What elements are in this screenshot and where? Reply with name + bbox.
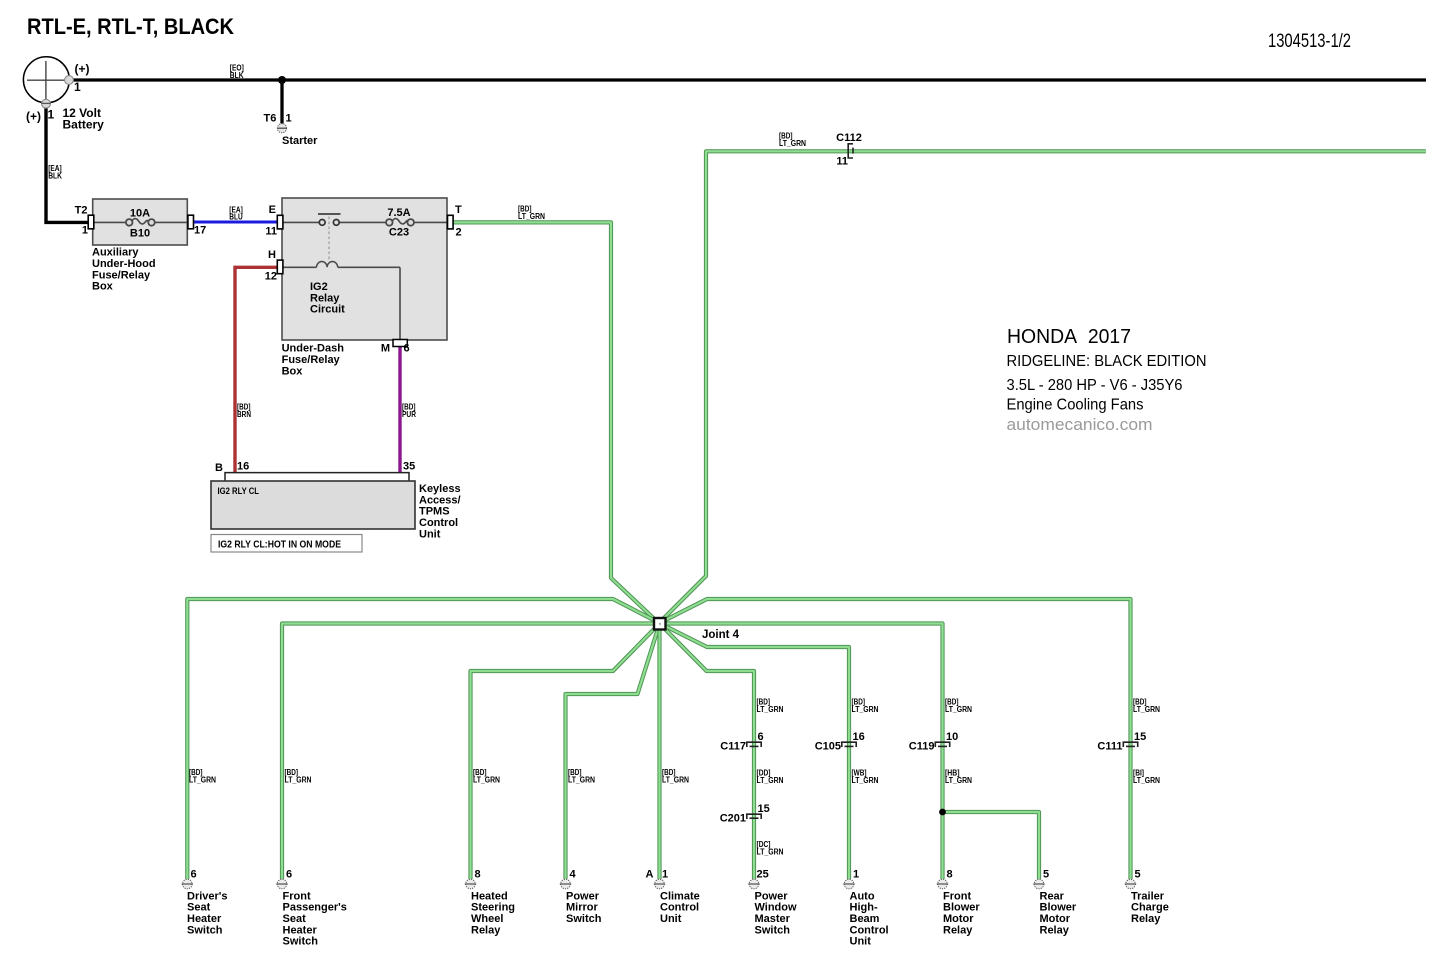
relay coil IG2 — [282, 262, 400, 340]
terminal 4 Power Mirror Switch — [560, 879, 571, 889]
svg-text:LT_GRN: LT_GRN — [1133, 776, 1160, 785]
svg-text:Master: Master — [755, 913, 791, 925]
svg-text:5: 5 — [1043, 869, 1049, 881]
label Auxiliary Under-Hood Fuse/Relay Box — [92, 247, 156, 293]
terminal 6 Driver's Seat Heater Switch — [182, 879, 193, 889]
connector C105 pin 16 — [842, 742, 856, 747]
terminal T6 Starter — [277, 124, 287, 133]
label Climate Control Unit — [660, 890, 700, 925]
svg-text:Steering: Steering — [471, 902, 515, 914]
wire [BD] LT_GRN Joint 4 to Heated Steering Wheel Relay — [471, 626, 658, 880]
connector C112 pin 11 — [848, 144, 853, 158]
svg-text:11: 11 — [265, 226, 277, 238]
svg-text:RIDGELINE: BLACK EDITION: RIDGELINE: BLACK EDITION — [1007, 353, 1207, 370]
connector C119 pin 10 — [935, 742, 949, 747]
svg-text:12: 12 — [265, 271, 277, 283]
svg-text:17: 17 — [194, 225, 206, 237]
svg-text:Seat: Seat — [187, 902, 211, 914]
svg-text:6: 6 — [191, 869, 197, 881]
svg-text:C23: C23 — [389, 227, 409, 239]
Keyless Access/TPMS Control Unit box — [211, 481, 415, 529]
svg-text:Driver's: Driver's — [187, 890, 228, 902]
svg-text:10: 10 — [946, 731, 958, 743]
svg-text:Switch: Switch — [566, 913, 602, 925]
label IG2 Relay Circuit — [310, 281, 345, 316]
svg-text:25: 25 — [757, 868, 769, 880]
svg-text:Blower: Blower — [1040, 902, 1077, 914]
svg-text:T2: T2 — [75, 205, 88, 217]
wire drop to Starter T6 — [280, 80, 283, 124]
svg-text:Fuse/Relay: Fuse/Relay — [92, 269, 151, 281]
svg-text:Heater: Heater — [187, 913, 222, 925]
junction dot on Front Blower wire — [939, 809, 946, 816]
svg-text:2: 2 — [456, 227, 462, 239]
label Heated Steering Wheel Relay — [471, 890, 515, 936]
svg-text:Passenger's: Passenger's — [283, 902, 347, 914]
svg-text:IG2 RLY CL: IG2 RLY CL — [218, 486, 260, 497]
svg-text:automecanico.com: automecanico.com — [1007, 415, 1153, 434]
label Auto High-Beam Control Unit — [850, 890, 889, 947]
svg-text:Starter: Starter — [282, 135, 318, 147]
svg-text:Keyless: Keyless — [419, 483, 461, 495]
terminal A1 Climate Control Unit — [654, 879, 665, 889]
svg-text:Front: Front — [283, 890, 311, 902]
svg-text:LT_GRN: LT_GRN — [852, 776, 879, 785]
svg-text:A: A — [646, 868, 654, 880]
svg-text:Switch: Switch — [283, 936, 319, 948]
connector E pin 11 on Under-Dash box — [277, 215, 283, 229]
svg-text:Fuse/Relay: Fuse/Relay — [282, 354, 341, 366]
svg-text:C111: C111 — [1097, 741, 1122, 753]
connector pin 17 on Auxiliary box — [188, 215, 194, 229]
label Driver's Seat Heater Switch — [187, 890, 228, 936]
svg-text:LT_GRN: LT_GRN — [945, 705, 972, 714]
svg-text:Relay: Relay — [943, 924, 973, 936]
svg-text:1: 1 — [48, 108, 55, 122]
svg-text:1304513-1/2: 1304513-1/2 — [1268, 31, 1351, 52]
svg-text:7.5A: 7.5A — [387, 207, 410, 219]
svg-text:Switch: Switch — [755, 924, 791, 936]
svg-text:Seat: Seat — [283, 913, 307, 925]
note box IG2 RLY CL:HOT IN ON MODE — [211, 535, 362, 553]
label Front Blower Motor Relay — [943, 890, 980, 936]
connector C201 pin 15 — [747, 814, 761, 819]
svg-text:Battery: Battery — [63, 117, 105, 131]
wire [BD] BRN Under-Dash H12 to Keyless B16 — [235, 267, 277, 472]
label Under-Dash Fuse/Relay Box — [282, 343, 345, 378]
svg-text:15: 15 — [1134, 731, 1146, 743]
svg-text:LT_GRN: LT_GRN — [568, 776, 595, 785]
label Trailer Charge Relay — [1131, 890, 1169, 925]
svg-text:8: 8 — [947, 869, 953, 881]
Auxiliary Under-Hood Fuse/Relay Box — [93, 199, 188, 245]
Keyless Access/TPMS Control Unit connector bracket B — [225, 473, 409, 481]
svg-text:Motor: Motor — [943, 913, 974, 925]
12 Volt Battery symbol — [23, 57, 73, 108]
svg-text:LT_GRN: LT_GRN — [518, 212, 545, 221]
svg-text:LT_GRN: LT_GRN — [662, 776, 689, 785]
svg-text:TPMS: TPMS — [419, 506, 450, 518]
terminal 1 Auto High-Beam Control Unit — [843, 879, 854, 889]
svg-text:Relay: Relay — [1040, 924, 1070, 936]
svg-text:Access/: Access/ — [419, 494, 461, 506]
terminal 8 Heated Steering Wheel Relay — [465, 879, 476, 889]
label Front Passenger's Seat Heater Switch — [283, 890, 347, 947]
terminal 6 Front Passenger's Seat Heater Switch — [276, 879, 287, 889]
svg-text:LT_GRN: LT_GRN — [189, 776, 216, 785]
svg-text:Switch: Switch — [187, 924, 223, 936]
svg-text:H: H — [268, 249, 276, 261]
connector T pin 2 on Under-Dash box — [448, 215, 454, 229]
Under-Dash Fuse/Relay Box — [282, 198, 447, 340]
svg-text:C105: C105 — [815, 741, 841, 753]
svg-text:6: 6 — [758, 731, 764, 743]
fuse 7.5A C23 — [386, 219, 414, 226]
battery positive terminal pin 1 (top wire) — [65, 76, 74, 85]
svg-text:Under-Dash: Under-Dash — [282, 343, 345, 355]
wire [BD]/[HB] LT_GRN Joint 4 to Front Blower Motor Relay — [664, 624, 943, 880]
wire [EA] BLU fuse B10 to Under-Dash E11 — [193, 221, 277, 224]
svg-text:T6: T6 — [264, 112, 277, 124]
svg-text:(+): (+) — [26, 110, 41, 124]
svg-text:Box: Box — [282, 365, 304, 377]
relay contact switch IG2 — [282, 214, 447, 261]
fuse 10A B10 — [93, 219, 188, 226]
battery terminal pin 1 (bottom wire) — [42, 99, 51, 108]
svg-text:4: 4 — [570, 869, 577, 881]
svg-text:6: 6 — [286, 869, 292, 881]
terminal 5 Rear Blower Motor Relay — [1033, 879, 1044, 889]
connector C117 pin 6 — [747, 742, 761, 747]
svg-text:Engine Cooling Fans: Engine Cooling Fans — [1007, 397, 1144, 414]
svg-text:Wheel: Wheel — [471, 913, 503, 925]
connector M pin 6 on Under-Dash box bottom — [393, 340, 407, 347]
svg-text:1: 1 — [286, 112, 292, 124]
wire [BD] LT_GRN Joint 4 to Power Mirror Switch — [566, 627, 659, 879]
wire [BD] PUR Under-Dash M6 to Keyless 35 — [398, 346, 401, 473]
label Power Mirror Switch — [566, 890, 602, 925]
svg-text:LT_GRN: LT_GRN — [779, 139, 806, 148]
svg-text:E: E — [269, 204, 276, 216]
svg-text:LT_GRN: LT_GRN — [757, 776, 784, 785]
svg-text:B10: B10 — [130, 228, 150, 240]
svg-text:Unit: Unit — [850, 936, 872, 948]
svg-text:Heated: Heated — [471, 890, 508, 902]
wire LT_GRN branch to Rear Blower Motor Relay — [943, 812, 1040, 879]
battery labels — [26, 62, 90, 124]
svg-text:Beam: Beam — [850, 913, 880, 925]
node Joint 4 — [654, 618, 666, 630]
svg-text:C119: C119 — [909, 741, 935, 753]
wire [EO] BLK battery positive bus — [67, 78, 1426, 81]
svg-text:LT_GRN: LT_GRN — [945, 776, 972, 785]
svg-text:Unit: Unit — [419, 528, 441, 540]
connector T2 pin 1 on Auxiliary box — [88, 215, 94, 229]
svg-text:LT_GRN: LT_GRN — [1133, 705, 1160, 714]
svg-text:BLK: BLK — [48, 172, 62, 181]
svg-text:LT_GRN: LT_GRN — [285, 776, 312, 785]
svg-text:6: 6 — [404, 343, 410, 355]
wire [BD] LT_GRN from Joint 4 up to C112 horizontal run — [661, 151, 1426, 621]
svg-text:Power: Power — [566, 890, 600, 902]
svg-text:Heater: Heater — [283, 924, 318, 936]
svg-text:LT_GRN: LT_GRN — [757, 705, 784, 714]
svg-text:Relay: Relay — [471, 924, 501, 936]
junction node at starter tap — [278, 76, 286, 84]
svg-text:Control: Control — [419, 517, 458, 529]
svg-text:Box: Box — [92, 281, 114, 293]
svg-text:Relay: Relay — [310, 292, 340, 304]
svg-text:16: 16 — [853, 731, 865, 743]
svg-text:B: B — [215, 462, 223, 474]
svg-text:Charge: Charge — [1131, 902, 1169, 914]
svg-text:Auto: Auto — [850, 890, 875, 902]
wire [BD] LT_GRN Joint 4 to Driver's Seat Heater Switch — [187, 599, 657, 879]
svg-text:C201: C201 — [720, 813, 746, 825]
wire [EA] BLK battery to Auxiliary Under-Hood Fuse/Relay Box — [46, 104, 89, 222]
svg-text:3.5L - 280 HP - V6 - J35Y6: 3.5L - 280 HP - V6 - J35Y6 — [1007, 377, 1183, 394]
svg-text:Rear: Rear — [1040, 890, 1065, 902]
svg-text:5: 5 — [1135, 869, 1141, 881]
wire [BD] LT_GRN Joint 4 to Climate Control Unit — [657, 628, 661, 879]
svg-text:C117: C117 — [720, 741, 746, 753]
svg-text:Front: Front — [943, 890, 971, 902]
svg-text:Climate: Climate — [660, 890, 700, 902]
svg-text:Control: Control — [850, 924, 889, 936]
wire [BD]/[DD]/[DC] LT_GRN Joint 4 to Power Window Master Switch — [662, 626, 755, 880]
svg-text:Trailer: Trailer — [1131, 890, 1165, 902]
svg-text:Circuit: Circuit — [310, 304, 345, 316]
svg-text:RTL-E, RTL-T, BLACK: RTL-E, RTL-T, BLACK — [27, 14, 234, 39]
svg-text:LT_GRN: LT_GRN — [757, 848, 784, 857]
label Keyless Access/TPMS Control Unit — [419, 483, 461, 540]
svg-text:Joint 4: Joint 4 — [702, 629, 740, 641]
svg-text:IG2 RLY CL:HOT IN ON MODE: IG2 RLY CL:HOT IN ON MODE — [218, 539, 341, 551]
svg-text:LT_GRN: LT_GRN — [852, 705, 879, 714]
svg-text:16: 16 — [237, 461, 249, 473]
svg-text:BRN: BRN — [237, 410, 251, 419]
svg-text:LT_GRN: LT_GRN — [473, 776, 500, 785]
connector C111 pin 15 — [1123, 742, 1137, 747]
svg-text:HONDA 2017: HONDA 2017 — [1007, 326, 1131, 348]
label Power Window Master Switch — [755, 890, 797, 936]
svg-text:Power: Power — [755, 890, 789, 902]
HONDA 2017 title block — [1007, 326, 1207, 434]
wire [BD] LT_GRN from Under-Dash T2 to Joint 4 — [454, 222, 658, 621]
svg-text:1: 1 — [662, 868, 668, 880]
svg-text:BLK: BLK — [230, 71, 244, 80]
svg-text:Blower: Blower — [943, 902, 980, 914]
svg-text:High-: High- — [850, 902, 878, 914]
label Rear Blower Motor Relay — [1040, 890, 1077, 936]
svg-text:15: 15 — [758, 803, 770, 815]
svg-text:(+): (+) — [75, 62, 90, 76]
svg-text:Window: Window — [755, 902, 797, 914]
wire [BD]/[WB] LT_GRN Joint 4 to Auto High-Beam Control Unit — [662, 625, 849, 880]
svg-text:Control: Control — [660, 902, 699, 914]
svg-text:M: M — [381, 343, 390, 355]
wire [BD] LT_GRN Joint 4 to Front Passenger's Seat Heater Switch — [282, 624, 655, 880]
terminal 8 Front Blower Motor Relay — [937, 879, 948, 889]
connector H pin 12 on Under-Dash box — [277, 260, 283, 274]
svg-text:Under-Hood: Under-Hood — [92, 258, 156, 270]
svg-text:Relay: Relay — [1131, 913, 1161, 925]
svg-text:C112: C112 — [836, 132, 862, 144]
svg-text:PUR: PUR — [402, 410, 416, 419]
wire [BD]/[BI] LT_GRN Joint 4 to Trailer Charge Relay — [662, 599, 1131, 879]
svg-text:IG2: IG2 — [310, 281, 328, 293]
svg-text:35: 35 — [403, 461, 415, 473]
svg-text:1: 1 — [853, 869, 859, 881]
svg-text:Auxiliary: Auxiliary — [92, 247, 139, 259]
svg-text:Mirror: Mirror — [566, 902, 599, 914]
svg-text:Motor: Motor — [1040, 913, 1071, 925]
svg-text:T: T — [455, 204, 462, 216]
svg-text:1: 1 — [74, 80, 81, 94]
terminal 5 Trailer Charge Relay — [1125, 879, 1136, 889]
terminal 25 Power Window Master Switch — [748, 879, 759, 889]
svg-text:11: 11 — [836, 156, 848, 168]
svg-text:1: 1 — [82, 225, 88, 237]
svg-text:8: 8 — [475, 869, 481, 881]
svg-text:10A: 10A — [130, 208, 150, 220]
svg-text:Unit: Unit — [660, 913, 682, 925]
svg-text:BLU: BLU — [229, 213, 243, 222]
